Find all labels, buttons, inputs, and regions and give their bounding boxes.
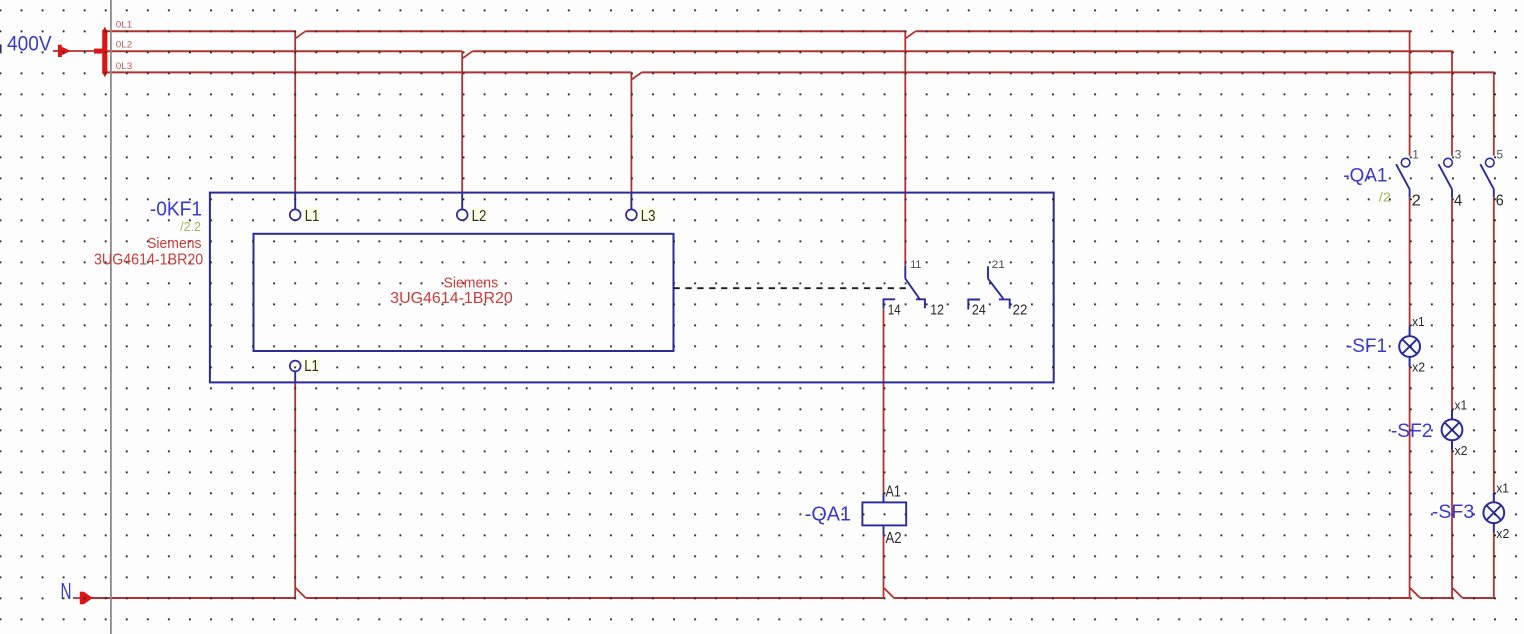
svg-text:6: 6 bbox=[1496, 193, 1504, 210]
svg-text:-SF1: -SF1 bbox=[1346, 335, 1387, 357]
svg-text:-SF2: -SF2 bbox=[1391, 420, 1433, 442]
svg-text:5: 5 bbox=[1496, 147, 1503, 161]
svg-text:x1: x1 bbox=[1412, 314, 1425, 329]
svg-text:x2: x2 bbox=[1496, 526, 1509, 541]
svg-text:A1: A1 bbox=[886, 483, 901, 500]
svg-text:/2.2: /2.2 bbox=[180, 220, 201, 234]
svg-text:x2: x2 bbox=[1412, 360, 1425, 375]
svg-text:Siemens: Siemens bbox=[444, 274, 499, 291]
svg-text:21: 21 bbox=[992, 259, 1005, 271]
svg-text:24: 24 bbox=[972, 303, 986, 319]
svg-text:11: 11 bbox=[910, 259, 921, 271]
svg-text:2: 2 bbox=[1412, 193, 1421, 210]
svg-text:-QA1: -QA1 bbox=[1343, 165, 1387, 187]
svg-text:x2: x2 bbox=[1455, 443, 1468, 458]
svg-text:x1: x1 bbox=[1496, 480, 1509, 495]
svg-text:3: 3 bbox=[1455, 147, 1462, 161]
svg-text:x1: x1 bbox=[1455, 398, 1468, 413]
svg-text:1: 1 bbox=[1412, 147, 1419, 161]
svg-text:/2: /2 bbox=[1379, 190, 1391, 205]
svg-text:A2: A2 bbox=[886, 530, 902, 547]
svg-text:0L3: 0L3 bbox=[116, 61, 133, 71]
svg-text:N: N bbox=[61, 578, 72, 604]
svg-text:0L2: 0L2 bbox=[116, 40, 133, 50]
svg-text:0L1: 0L1 bbox=[116, 19, 133, 29]
svg-text:22: 22 bbox=[1013, 303, 1028, 319]
svg-text:12: 12 bbox=[930, 303, 944, 319]
svg-text:3UG4614-1BR20: 3UG4614-1BR20 bbox=[94, 251, 204, 268]
svg-text:L3: L3 bbox=[641, 208, 656, 225]
svg-text:Siemens: Siemens bbox=[147, 235, 201, 252]
svg-text:L1: L1 bbox=[304, 358, 319, 375]
svg-text:3UG4614-1BR20: 3UG4614-1BR20 bbox=[390, 290, 513, 307]
svg-text:400V: 400V bbox=[7, 33, 52, 56]
svg-text:-0KF1: -0KF1 bbox=[150, 199, 202, 221]
svg-text:L2: L2 bbox=[472, 208, 487, 225]
svg-text:-QA1: -QA1 bbox=[805, 503, 851, 525]
svg-text:L1: L1 bbox=[305, 208, 320, 225]
svg-text:-SF3: -SF3 bbox=[1432, 501, 1474, 523]
svg-text:4: 4 bbox=[1454, 193, 1462, 210]
svg-text:14: 14 bbox=[888, 303, 901, 319]
